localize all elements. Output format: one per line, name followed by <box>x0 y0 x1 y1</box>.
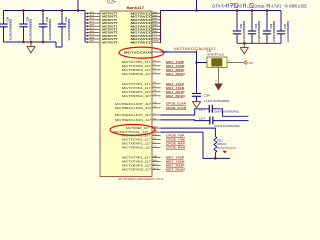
svg-text:MGTAVCC: MGTAVCC <box>131 41 153 44</box>
pin MGTXTXN2_117 W1 <box>152 139 161 141</box>
wire - cap4 bottom jog <box>56 42 62 47</box>
pin stub wire A Y6 <box>152 114 161 116</box>
svg-text:MGT_RX0N: MGT_RX0N <box>166 72 186 76</box>
svg-text:MGTXRXP3_117: MGTXRXP3_117 <box>122 164 151 167</box>
svg-text:MGT_RX1P: MGT_RX1P <box>166 90 185 94</box>
svg-text:MGTVCCAUX: MGTVCCAUX <box>124 51 153 54</box>
pin MGTAVCC Y5 (right row 9) <box>152 38 161 40</box>
svg-text:4.7uF/6.3V/X5R(0805): 4.7uF/6.3V/X5R(0805) <box>204 100 230 103</box>
junction - ferrite feed <box>195 61 198 64</box>
wire - MGTAVTTRCAL to bottom rail <box>161 132 231 158</box>
junction - left rail at x78 <box>77 9 80 12</box>
junction - right bottom rail gnd <box>243 42 246 45</box>
svg-text:MGTXTXN0_117: MGTXTXN0_117 <box>122 64 151 67</box>
wire - left bank top rail <box>4 10 86 12</box>
wire - top right rail <box>161 10 282 12</box>
svg-text:MGTREFCLK0N_117: MGTREFCLK0N_117 <box>115 106 151 109</box>
capacitor C35 4.7uF/6.3V/X5R(0805) <box>280 11 282 32</box>
svg-text:MGT_TX0P: MGT_TX0P <box>166 60 184 64</box>
marker - small red arrow below label <box>223 151 227 154</box>
svg-text:MGTAVTTRCAL117: MGTAVTTRCAL117 <box>217 147 237 150</box>
svg-text:(0805 p.305): (0805 p.305) <box>289 4 307 9</box>
pin MGTAVCC AA4 (right row 5) <box>152 25 161 27</box>
svg-text:C32: C32 <box>240 23 243 28</box>
svg-text:T1B: T1B <box>247 61 253 65</box>
svg-text:MGTXRXN1_117: MGTXRXN1_117 <box>122 94 151 97</box>
capacitor C264 4.7uF/6.3V/X5R(0805) <box>196 93 198 95</box>
svg-text:MGTXTXP1_117: MGTXTXP1_117 <box>122 82 151 85</box>
svg-text:100R(0402): 100R(0402) <box>217 144 227 146</box>
wire - MGTVCCAUX to ferrite <box>161 52 208 63</box>
svg-text:MGTAVTT: MGTAVTT <box>102 40 117 44</box>
svg-text:MGTXTXP3_117: MGTXTXP3_117 <box>122 156 151 159</box>
svg-text:C29: C29 <box>26 16 29 21</box>
wire - refclk line B after cap <box>213 120 249 122</box>
svg-text:Bank117: Bank117 <box>127 5 145 10</box>
pin MGTREFCLK0P_117 U6 <box>152 103 161 105</box>
svg-text:MGTXTXN1_117: MGTXTXN1_117 <box>122 86 151 89</box>
pin 3 ferrite output <box>227 62 243 64</box>
pin MGTREFCLK0N_117 U5 <box>152 107 161 109</box>
pin MGTAVTT AB5 (left row 5) <box>85 25 100 27</box>
wire - stub from sheet top at x196.5 <box>196 0 198 11</box>
pin MGTAVTT AB9 (left row 1) <box>85 12 100 14</box>
pin MGTAVTT AC5 (left row 6) <box>85 28 100 30</box>
marker - label anchor tick <box>196 50 198 52</box>
pin MGTXRXP3_117 AC4 <box>152 165 161 167</box>
pin MGTAVCC Y7 (right row 8) <box>152 35 161 37</box>
wire - refclk line B <box>161 119 211 122</box>
pin MGTXRXP0_117 J4 <box>152 69 161 71</box>
capacitor C28 4.7uF/6.3V/X5R(0805) <box>3 11 5 25</box>
junction - top rail x196.5 <box>195 9 198 12</box>
junction - left rail cap4 <box>61 9 64 12</box>
annotation ellipse MGTVCCAUX <box>119 47 164 58</box>
svg-text:4.7uF/6.3V/X5R(0805): 4.7uF/6.3V/X5R(0805) <box>30 19 33 41</box>
svg-text:GTX: GTX <box>212 4 221 9</box>
svg-text:MGTXRXP0_117: MGTXRXP0_117 <box>122 68 151 71</box>
pin 2 ferrite bottom <box>218 68 220 84</box>
pin MGTAVCC AA2 (right row 7) <box>152 32 161 34</box>
svg-text:MGTXRXN3_117: MGTXRXN3_117 <box>122 168 151 171</box>
svg-text:AC5: AC5 <box>90 27 96 30</box>
svg-text:AC3: AC3 <box>90 33 96 36</box>
svg-text:AC4: AC4 <box>153 163 159 166</box>
svg-text:MGTXTXN2_117: MGTXTXN2_117 <box>122 138 151 141</box>
svg-text:MGTREFCLK1N_117: MGTREFCLK1N_117 <box>115 119 151 122</box>
svg-text:XC7K325T-2FFG900C GTX: XC7K325T-2FFG900C GTX <box>118 177 164 180</box>
wire - feed column down to C264 <box>196 63 198 94</box>
pin MGTRREF_117 AB8 <box>152 127 161 129</box>
wire - left pin bus <box>84 11 86 43</box>
svg-text:10uF/6.3V/X5R(0402): 10uF/6.3V/X5R(0402) <box>214 110 240 114</box>
pin MGTAVCC AA8 (right row 1) <box>152 12 161 14</box>
svg-text:MGTREFCLK1P_117: MGTREFCLK1P_117 <box>115 114 151 117</box>
pin MGTAVTT AB7 (left row 3) <box>85 19 100 21</box>
resistor R261 100R(0402) <box>214 137 217 153</box>
wire - left bank bottom rail <box>4 41 57 43</box>
svg-text:MGT_RX0P: MGT_RX0P <box>166 68 185 72</box>
pin MGTAVTT AA7 (left row 10) <box>85 41 100 43</box>
pin MGTXTXP1_117 H2 <box>152 83 161 85</box>
svg-text:MGT_TX1P: MGT_TX1P <box>166 82 184 86</box>
annotation ellipse MGTRREF/MGTAVTTRCAL <box>110 124 155 135</box>
svg-text:C171: C171 <box>199 108 206 112</box>
pin MGTXTXN3_117 AB1 <box>152 161 161 163</box>
svg-text:MGTXRXN0_117: MGTXRXN0_117 <box>122 72 151 75</box>
pin MGTVCCAUX Y8 <box>152 51 161 53</box>
svg-text:SFI4JPT1U2: SFI4JPT1U2 <box>207 53 225 57</box>
svg-text:4.7uF/6.3V/X5R(0805): 4.7uF/6.3V/X5R(0805) <box>273 21 276 43</box>
svg-text:4.7uF/6.3V/X5R(0805): 4.7uF/6.3V/X5R(0805) <box>243 21 246 43</box>
svg-text:MGTXRXP1_117: MGTXRXP1_117 <box>122 90 151 93</box>
svg-text:MGTREFCLK0P_117: MGTREFCLK0P_117 <box>115 102 151 105</box>
svg-text:4.7uF/6.3V/X5R(0805): 4.7uF/6.3V/X5R(0805) <box>10 19 13 41</box>
pin MGTXRXN3_117 AC3 <box>152 169 161 171</box>
capacitor C33 4.7uF/6.3V/X5R(0805) <box>251 11 253 32</box>
svg-text:C34: C34 <box>270 23 273 28</box>
wire - right bank bottom rail <box>237 42 281 44</box>
junction - left bottom rail cap3 <box>42 41 45 44</box>
svg-text:MGT_TX1N: MGT_TX1N <box>166 86 185 90</box>
svg-text:AC3: AC3 <box>153 167 159 170</box>
svg-text:MGTXRXP2_117: MGTXRXP2_117 <box>122 142 151 145</box>
svg-text:CPCIE_CLKN: CPCIE_CLKN <box>166 106 186 110</box>
svg-text:AC9: AC9 <box>90 14 96 17</box>
junction - resistor bottom <box>214 157 217 160</box>
pin MGTAVCC AA6 (right row 3) <box>152 19 161 21</box>
svg-text:MGTXTXP0_117: MGTXTXP0_117 <box>122 60 151 63</box>
svg-text:C174: C174 <box>199 117 206 121</box>
junction - top rail cap <box>251 9 254 12</box>
svg-text:MGTXTXP2_117: MGTXTXP2_117 <box>122 134 151 137</box>
pin MGTXRXN2_117 Y3 <box>152 146 161 148</box>
svg-text:MGTXRXN2_117: MGTXRXN2_117 <box>122 146 151 149</box>
svg-text:R261: R261 <box>217 138 224 142</box>
svg-text:C264: C264 <box>204 93 211 97</box>
pin MGTXRXP2_117 Y4 <box>152 143 161 145</box>
capacitor C31 4.7uF/6.3V/X5R(0805) <box>61 11 63 25</box>
svg-text:4.7uF/6.3V/X5R(0805): 4.7uF/6.3V/X5R(0805) <box>49 19 52 41</box>
junction - left bottom rail cap2 <box>22 41 25 44</box>
pin MGTAVTT AC7 (left row 4) <box>85 22 100 24</box>
ic U2F bank117 body <box>100 11 152 177</box>
capacitor C29 4.7uF/6.3V/X5R(0805) <box>23 11 25 25</box>
svg-text:U2F: U2F <box>107 0 116 6</box>
svg-text:C31: C31 <box>65 16 68 21</box>
pin MGTXRXN0_117 J3 <box>152 73 161 75</box>
junction - left rail cap2 <box>22 9 25 12</box>
svg-text:C30: C30 <box>46 16 49 21</box>
pin MGTAVCC AB6 (right row 4) <box>152 22 161 24</box>
ground - left bank <box>30 42 32 47</box>
svg-text:MGT_RX2N: MGT_RX2N <box>166 168 186 172</box>
pin stub wire B W8 <box>152 119 161 121</box>
junction - top rail cap <box>236 9 239 12</box>
capacitor C174 10uF/6.3V/X5R(0402) series <box>209 117 211 125</box>
pin MGTAVTT AC9 (left row 2) <box>85 16 100 18</box>
pin MGTAVTTRCAL_117 AB7 <box>152 131 161 133</box>
pin MGTXTXP0_117 K2 <box>152 61 161 63</box>
pin MGTAVCC W9 (right row 10) <box>152 41 161 43</box>
wire - refclk line A after cap <box>212 109 248 117</box>
wire - resistor bottom lead <box>214 153 216 159</box>
svg-text:C33: C33 <box>255 23 258 28</box>
pin MGTXTXP2_117 W2 <box>152 135 161 137</box>
pin MGTAVCC AB4 (right row 6) <box>152 28 161 30</box>
wire - MGTRREF to resistor top <box>161 128 216 136</box>
pin MGTXRXN1_117 G3 <box>152 95 161 97</box>
pin MGTXRXP1_117 G4 <box>152 91 161 93</box>
svg-text:MGT_RX1N: MGT_RX1N <box>166 94 186 98</box>
ground - ferrite arrow (filled) <box>214 84 223 91</box>
wire - right pin bus <box>160 11 162 43</box>
svg-text:W9: W9 <box>153 40 159 43</box>
junction - left rail cap3 <box>42 9 45 12</box>
svg-text:4.7uF/6.3V/X5R(0805): 4.7uF/6.3V/X5R(0805) <box>287 21 290 43</box>
svg-text:4.7uF/6.3V/X5R(0805): 4.7uF/6.3V/X5R(0805) <box>68 19 71 41</box>
capacitor C30 4.7uF/6.3V/X5R(0805) <box>42 11 44 25</box>
capacitor C34 4.7uF/6.3V/X5R(0805) <box>266 11 268 32</box>
svg-text:C35: C35 <box>284 23 287 28</box>
svg-text:4.7uF/6.3V/X5R(0805): 4.7uF/6.3V/X5R(0805) <box>258 21 261 43</box>
pin MGTAVCC AB8 (right row 2) <box>152 16 161 18</box>
pin MGTAVTT AA9 (left row 9) <box>85 38 100 40</box>
svg-text:MGTRREF_117: MGTRREF_117 <box>126 126 149 130</box>
svg-text:Group: Group <box>254 5 264 9</box>
capacitor C32 4.7uF/6.3V/X5R(0805) <box>236 11 238 32</box>
svg-text:MGT_TX0N: MGT_TX0N <box>166 64 185 68</box>
pin MGTAVTT AB3 (left row 7) <box>85 32 100 34</box>
svg-text:C28: C28 <box>6 16 9 21</box>
junction - left bottom rail gnd <box>30 41 33 44</box>
pin MGTXTXN1_117 H1 <box>152 87 161 89</box>
wire - refclk line A <box>161 109 210 115</box>
svg-text:MGTXTXN3_117: MGTXTXN3_117 <box>122 160 151 163</box>
ground - below C264 <box>192 101 200 103</box>
ground - right bank <box>243 43 245 47</box>
label T1B power flag <box>244 61 247 65</box>
pin MGTXTXN0_117 K1 <box>152 65 161 67</box>
svg-text:4.7uF1: 4.7uF1 <box>271 4 281 8</box>
svg-text:CPCIE_RXN: CPCIE_RXN <box>166 146 185 150</box>
pin MGTXTXP3_117 AA2 <box>152 157 161 159</box>
pin MGTAVTT AC3 (left row 8) <box>85 35 100 37</box>
svg-text:AC7: AC7 <box>90 21 96 24</box>
svg-text:10uF/6.3V/X5R(0402): 10uF/6.3V/X5R(0402) <box>214 124 240 128</box>
capacitor C171 10uF/6.3V/X5R(0402) series <box>208 105 210 113</box>
wire - stub from sheet top to left rail <box>77 0 79 11</box>
junction - top rail cap <box>266 9 269 12</box>
